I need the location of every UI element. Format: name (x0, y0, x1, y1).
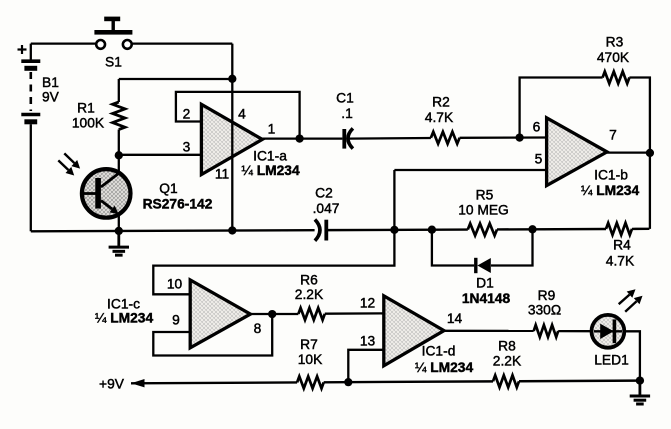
svg-text:R1: R1 (77, 101, 95, 116)
svg-text:Q1: Q1 (159, 181, 177, 196)
svg-text:IC1-a: IC1-a (253, 149, 287, 164)
svg-text:8: 8 (254, 321, 262, 336)
svg-text:9: 9 (172, 313, 180, 328)
svg-text:2.2K: 2.2K (493, 354, 522, 369)
svg-text:14: 14 (447, 311, 463, 326)
svg-text:470K: 470K (597, 50, 630, 65)
svg-text:10 MEG: 10 MEG (458, 202, 509, 217)
svg-text:R2: R2 (432, 95, 450, 110)
svg-text:¼ LM234: ¼ LM234 (415, 360, 474, 375)
svg-text:C2: C2 (315, 185, 333, 200)
svg-text:9V: 9V (42, 90, 60, 105)
svg-text:+9V: +9V (99, 376, 125, 391)
svg-text:R8: R8 (498, 339, 516, 354)
svg-text:.047: .047 (313, 201, 340, 216)
svg-text:1: 1 (268, 122, 276, 137)
svg-text:11: 11 (215, 167, 229, 182)
svg-text:4: 4 (238, 106, 246, 121)
svg-text:R5: R5 (476, 188, 494, 203)
svg-text:B1: B1 (42, 75, 59, 90)
svg-text:¼ LM234: ¼ LM234 (581, 183, 640, 198)
svg-text:10: 10 (167, 277, 183, 292)
svg-text:12: 12 (360, 296, 375, 311)
svg-text:.1: .1 (341, 106, 353, 121)
svg-text:R4: R4 (613, 238, 631, 253)
svg-text:13: 13 (360, 333, 376, 348)
svg-text:330Ω: 330Ω (528, 303, 561, 318)
svg-text:IC1-d: IC1-d (422, 344, 456, 359)
svg-text:R6: R6 (300, 272, 318, 287)
svg-text:¼ LM234: ¼ LM234 (95, 310, 154, 325)
svg-text:2.2K: 2.2K (295, 287, 324, 302)
svg-text:RS276-142: RS276-142 (143, 197, 213, 212)
svg-text:LED1: LED1 (594, 352, 629, 367)
svg-text:5: 5 (535, 151, 543, 166)
svg-text:S1: S1 (105, 55, 122, 70)
svg-text:3: 3 (183, 139, 191, 154)
svg-text:1N4148: 1N4148 (462, 291, 511, 306)
svg-text:6: 6 (533, 119, 541, 134)
svg-text:100K: 100K (72, 115, 105, 130)
svg-text:R3: R3 (606, 35, 624, 50)
svg-text:IC1-b: IC1-b (594, 168, 628, 183)
svg-text:C1: C1 (336, 91, 354, 106)
svg-text:R9: R9 (538, 288, 556, 303)
svg-text:D1: D1 (476, 275, 494, 290)
svg-text:R7: R7 (300, 337, 318, 352)
svg-text:7: 7 (609, 128, 617, 143)
svg-text:4.7K: 4.7K (425, 110, 454, 125)
svg-text:10K: 10K (298, 352, 323, 367)
svg-text:¼ LM234: ¼ LM234 (241, 163, 300, 178)
svg-text:4.7K: 4.7K (606, 253, 635, 268)
svg-text:IC1-c: IC1-c (107, 297, 140, 312)
svg-text:2: 2 (183, 106, 191, 121)
